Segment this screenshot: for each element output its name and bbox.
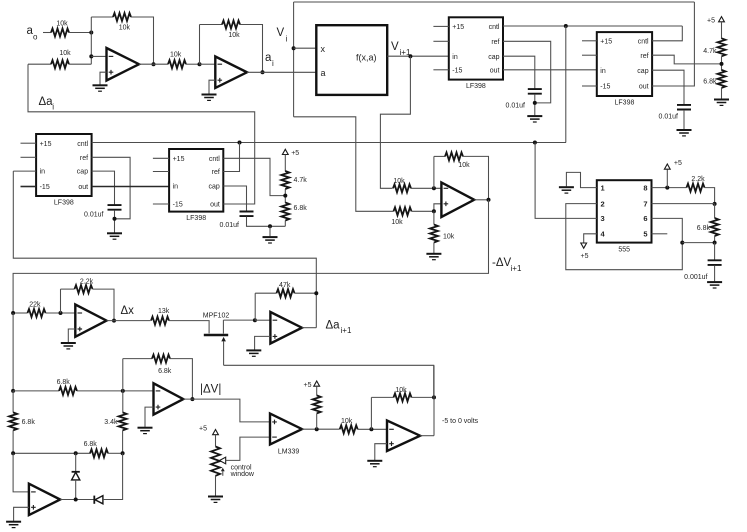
wire abs input column xyxy=(12,313,14,391)
op-amp U3 input polarity glyphs xyxy=(444,187,449,189)
node 555 pin7 junction xyxy=(713,202,717,206)
wire U14 output riser xyxy=(433,365,435,435)
function block f(x,a) xyxy=(316,25,387,95)
resistor 6.8k 555 timing xyxy=(711,218,719,236)
node right divider junction xyxy=(720,62,724,66)
svg-text:6.8k: 6.8k xyxy=(697,225,711,232)
node U6 cap/ref junction xyxy=(533,101,537,105)
svg-text:10k: 10k xyxy=(59,50,71,57)
svg-text:3: 3 xyxy=(601,214,605,223)
op-amp U9 input polarity glyphs xyxy=(78,312,83,314)
node 22k input xyxy=(11,311,15,315)
wire left divider top xyxy=(284,155,286,172)
ground U4 hold cap xyxy=(107,233,122,239)
wire U1 noninverting to ground xyxy=(100,72,107,84)
wire U10 feedback left xyxy=(255,292,276,294)
svg-text:-ΔV: -ΔV xyxy=(492,257,512,269)
ground 555 pin1 xyxy=(559,187,574,193)
node a_o/feedback junction xyxy=(89,31,93,35)
supply +5 arrow (left divider) xyxy=(282,149,288,154)
wire U5 cap bottom row xyxy=(247,217,286,227)
svg-text:10k: 10k xyxy=(119,24,131,31)
wire U7 ref to divider xyxy=(652,55,721,64)
wire 555 pin5 stub xyxy=(652,233,668,235)
capacitor 0.01uf U6 hold xyxy=(528,89,542,94)
wire +5 stub 555 pin8 xyxy=(666,169,668,187)
wire U10 feedback riser xyxy=(254,293,256,320)
wire U10 inverting input xyxy=(255,319,271,321)
resistor 13k xyxy=(151,317,169,325)
svg-text:8: 8 xyxy=(643,183,647,192)
wire 555 pin2 loop xyxy=(566,204,683,270)
svg-text:555: 555 xyxy=(618,247,630,254)
op-amp U11 input polarity glyphs xyxy=(156,390,161,392)
wire abs mid row xyxy=(13,452,90,454)
wire delta-a_i feedback route xyxy=(28,64,255,204)
wire pot top lead xyxy=(215,435,217,447)
svg-text:+15: +15 xyxy=(452,24,464,31)
wire U5 cntl route to divider xyxy=(223,158,285,195)
node abs mid row right xyxy=(121,451,125,455)
wire U10 output xyxy=(302,327,316,329)
IC U8 555 timer xyxy=(597,180,652,242)
wire U14 feedback riser xyxy=(370,397,372,429)
svg-text:-15: -15 xyxy=(600,84,610,91)
svg-text:10k: 10k xyxy=(393,178,405,185)
wire U7 -15 stub xyxy=(582,85,597,87)
resistor 10k U14 feedback xyxy=(394,393,412,401)
svg-text:cntl: cntl xyxy=(489,24,500,31)
op-amp U11 abs output xyxy=(154,383,184,414)
wire U14 feedback right xyxy=(412,396,435,398)
wire U7 out return to V_i xyxy=(652,2,694,86)
wire U9 output xyxy=(107,320,151,322)
resistor 10k diff noninverting to ground xyxy=(430,225,438,243)
ground U2 noninverting xyxy=(202,95,217,101)
svg-text:a: a xyxy=(265,52,272,64)
op-amp U13 LM339 comparator xyxy=(270,414,302,445)
svg-text:out: out xyxy=(639,84,649,91)
svg-text:ref: ref xyxy=(80,155,88,162)
wire timing cap top lead xyxy=(714,243,716,260)
svg-text:10k: 10k xyxy=(443,234,455,241)
svg-text:22k: 22k xyxy=(29,301,41,308)
node U4 cap/ref junction xyxy=(113,217,117,221)
wire V_i route to diff amp xyxy=(294,117,394,212)
svg-text:+5: +5 xyxy=(581,253,589,260)
resistor 10k a_o input xyxy=(51,29,69,37)
wire U7 pin2 stub xyxy=(582,54,597,56)
wire diff feedback to output xyxy=(463,156,489,199)
wire 3.4k top lead xyxy=(122,391,124,413)
op-amp U2 input polarity glyphs xyxy=(218,63,223,65)
svg-text:2.2k: 2.2k xyxy=(80,278,94,285)
op-amp U10 input polarity glyphs xyxy=(273,319,278,321)
resistor 10k delta-a_i input xyxy=(51,60,69,68)
supply +5 arrow (pot) xyxy=(213,430,219,435)
svg-text:+15: +15 xyxy=(600,38,612,45)
diode D1 xyxy=(72,471,80,473)
ground U12 noninverting xyxy=(6,522,21,528)
svg-text:in: in xyxy=(600,68,606,75)
transistor Q1 MPF102 xyxy=(204,334,228,337)
wire U7 cap to ground xyxy=(683,110,685,129)
svg-text:6.8k: 6.8k xyxy=(158,368,172,375)
node U14 inverting xyxy=(369,427,373,431)
svg-text:i+1: i+1 xyxy=(511,264,522,273)
wire -dV_i+1 route xyxy=(13,200,488,313)
wire U7 cap lead xyxy=(652,70,684,104)
wire U6 out to U7 in xyxy=(503,69,597,71)
svg-text:0.01uf: 0.01uf xyxy=(84,212,104,219)
wire U2 output to a input xyxy=(247,71,316,73)
op-amp U9 delta-x xyxy=(75,305,106,337)
resistor 6.8k abs input xyxy=(59,387,77,395)
svg-text:10k: 10k xyxy=(341,418,353,425)
ground U6 hold cap xyxy=(527,116,542,122)
supply +5 arrow (555 pin8) xyxy=(664,164,670,169)
wire U6 cap to ground xyxy=(534,94,536,115)
node 555 pin6 junction xyxy=(680,241,684,245)
node U1 output xyxy=(152,62,156,66)
op-amp U14 output inverter xyxy=(387,421,420,452)
svg-text:o: o xyxy=(33,33,38,42)
wire 555 pin6 xyxy=(652,218,683,242)
wire timing cap to ground xyxy=(714,265,716,281)
svg-text:4.7k: 4.7k xyxy=(294,177,308,184)
wire U4 +15 stub xyxy=(21,142,37,144)
svg-text:ref: ref xyxy=(212,169,220,176)
wire U6 -15 stub xyxy=(433,69,448,71)
resistor 10k U1 feedback xyxy=(113,13,131,21)
wire U12 inverting input xyxy=(13,453,29,492)
ground U7 hold cap xyxy=(677,130,692,136)
wire U6 ref loop xyxy=(503,41,551,103)
svg-text:6.8k: 6.8k xyxy=(22,419,36,426)
resistor 6.8k left divider xyxy=(281,203,289,221)
wire U4 in lead xyxy=(13,170,36,172)
node U5 cap ground tap xyxy=(268,224,272,228)
svg-text:cntl: cntl xyxy=(77,141,88,148)
node U12 output xyxy=(74,498,78,502)
svg-text:47k: 47k xyxy=(279,282,291,289)
wire 555 pin7 xyxy=(652,203,715,205)
wire U5 ref riser xyxy=(223,143,239,172)
svg-text:+15: +15 xyxy=(40,141,52,148)
wire U4 out to U5 in xyxy=(92,186,170,188)
ground U5 hold cap xyxy=(263,237,278,243)
resistor 10k diff noninverting input xyxy=(394,207,412,215)
wire U14 noninverting to ground xyxy=(375,444,387,460)
wire U1 output xyxy=(139,63,168,65)
node 555 pin8 supply tap xyxy=(665,186,669,190)
diode D2 xyxy=(93,496,95,504)
svg-text:6.8k: 6.8k xyxy=(57,379,71,386)
wire JFET gate control xyxy=(224,365,434,397)
wire 6.8k bottom lead xyxy=(714,236,716,243)
wire 555 pin8 supply row xyxy=(652,187,687,189)
svg-text:5: 5 xyxy=(643,230,647,239)
resistor 4.7k left divider xyxy=(281,171,289,189)
svg-text:out: out xyxy=(78,184,88,191)
wire U2 feedback left riser xyxy=(199,25,201,65)
node delta-x output xyxy=(112,319,116,323)
wire U5 pin2 stub xyxy=(153,171,169,173)
wire U1 inverting input xyxy=(91,55,106,57)
resistor 2.2k pullup xyxy=(313,395,321,413)
svg-text:1: 1 xyxy=(601,183,605,192)
wire 555 timing cap row xyxy=(682,242,714,244)
node U1 inverting input xyxy=(89,54,93,58)
wire 6.8k left vertical bottom lead xyxy=(12,430,14,453)
node LM339 output xyxy=(315,427,319,431)
svg-text:LF398: LF398 xyxy=(186,215,206,222)
wire diff noninverting node xyxy=(412,204,442,212)
wire U10 noninverting to ground xyxy=(255,336,271,349)
node |dV| output xyxy=(190,397,194,401)
svg-text:13k: 13k xyxy=(158,308,170,315)
wire 3.4k bottom lead xyxy=(122,430,124,453)
op-amp U1 xyxy=(107,48,140,81)
IC U6 LF398 sample-hold xyxy=(449,17,503,79)
wire |dV| route to comparator xyxy=(183,399,270,422)
wire U4 in route from delta-a_i+1 xyxy=(13,171,316,328)
resistor 10k diff inverting input xyxy=(393,184,411,192)
wire V_i+1 drop to diff amp xyxy=(380,56,410,188)
wire U12 output xyxy=(60,499,94,501)
node U9 inverting xyxy=(59,311,63,315)
svg-text:4.7k: 4.7k xyxy=(703,48,717,55)
svg-text:ref: ref xyxy=(491,39,499,46)
ground diff noninverting resistor xyxy=(426,254,441,260)
node control bus to 555 out xyxy=(533,141,537,145)
node diode D1 tap xyxy=(74,451,78,455)
op-amp U3 difference amp xyxy=(441,183,474,218)
wire U6/U7 cntl line xyxy=(503,25,682,27)
svg-text:2: 2 xyxy=(601,199,605,208)
node control bus to U5 ref xyxy=(238,141,242,145)
ground U10 noninverting xyxy=(246,350,261,356)
svg-text:Δa: Δa xyxy=(326,320,341,332)
svg-text:0.01uf: 0.01uf xyxy=(659,114,679,121)
svg-text:in: in xyxy=(40,169,46,176)
wire U3 output xyxy=(474,199,488,201)
svg-text:2.2k: 2.2k xyxy=(691,176,705,183)
svg-text:+5: +5 xyxy=(304,382,312,389)
op-amp U12 input polarity glyphs xyxy=(31,491,36,493)
wire right divider bottom xyxy=(721,88,723,99)
svg-text:MPF102: MPF102 xyxy=(203,313,230,320)
wire U11 feedback left xyxy=(123,358,152,360)
node U14 feedback/gate junction xyxy=(432,395,436,399)
svg-text:6: 6 xyxy=(643,214,647,223)
wire U5 cap lead xyxy=(223,186,246,211)
wire U7 cntl riser xyxy=(652,26,682,41)
wire 6.8k left vertical top lead xyxy=(12,391,14,413)
ground right divider xyxy=(714,100,729,106)
capacitor 0.01uf U7 hold xyxy=(677,105,691,110)
svg-text:-5 to 0 volts: -5 to 0 volts xyxy=(442,418,479,425)
wire U1 feedback top left xyxy=(91,16,113,18)
wire U9 feedback top left xyxy=(61,288,75,290)
svg-text:cntl: cntl xyxy=(638,38,649,45)
wire pot bottom lead xyxy=(215,476,217,496)
svg-text:out: out xyxy=(210,202,220,209)
IC U7 LF398 sample-hold xyxy=(597,32,652,96)
node U3 output xyxy=(487,198,491,202)
resistor 22k xyxy=(28,309,46,317)
wire pullup top lead xyxy=(316,386,318,395)
svg-text:cap: cap xyxy=(488,54,499,61)
wire U2 noninverting to ground xyxy=(209,80,215,94)
svg-text:6.8k: 6.8k xyxy=(294,205,308,212)
wire 2.2k to pin7 node xyxy=(705,188,715,205)
svg-text:10k: 10k xyxy=(170,52,182,59)
ground U1 noninverting xyxy=(93,85,108,91)
node a_i xyxy=(261,70,265,74)
svg-text:LM339: LM339 xyxy=(278,449,300,456)
svg-text:+15: +15 xyxy=(173,156,185,163)
wire 555 pin1 to ground xyxy=(566,172,596,187)
svg-text:0.01uf: 0.01uf xyxy=(220,222,240,229)
supply +5 arrow (right divider) xyxy=(719,17,725,22)
svg-text:V: V xyxy=(277,27,285,39)
svg-text:in: in xyxy=(452,54,458,61)
potentiometer control window xyxy=(211,447,220,476)
wire right divider top xyxy=(721,22,723,39)
wire 6.8k top lead xyxy=(714,204,716,218)
svg-text:i: i xyxy=(52,103,54,112)
svg-text:Δx: Δx xyxy=(121,305,135,317)
wire left divider middle xyxy=(284,189,286,203)
op-amp U13 input polarity glyphs xyxy=(272,420,277,425)
resistor 6.8k abs left xyxy=(9,412,17,430)
wire U9 noninverting to ground xyxy=(68,329,75,342)
resistor 10k U2 feedback xyxy=(222,21,240,29)
wire summing node column xyxy=(90,17,92,64)
wire right divider middle xyxy=(721,56,723,70)
wire U9 feedback riser xyxy=(60,289,62,313)
node V_i to x input xyxy=(292,46,296,50)
svg-text:Δa: Δa xyxy=(39,96,54,108)
wire 13k to JFET drain xyxy=(169,321,209,334)
svg-text:in: in xyxy=(173,184,179,191)
wire diff ground resistor bottom xyxy=(433,243,435,254)
wire a_o resistor to node xyxy=(69,32,91,34)
wire U11 feedback right xyxy=(170,359,192,400)
wire LM339 output xyxy=(302,428,340,430)
wire delta-a_i resistor to column xyxy=(69,63,91,65)
resistor 10k diff feedback xyxy=(445,152,463,160)
ground U9 noninverting xyxy=(61,343,76,349)
node abs mid row left xyxy=(11,451,15,455)
svg-text:-15: -15 xyxy=(452,67,462,74)
wire abs top row left xyxy=(13,390,59,392)
resistor 2.2k 555 timing xyxy=(687,184,705,192)
wire U4 cap lead xyxy=(92,171,115,205)
wire U5 +15 stub xyxy=(153,157,169,159)
wire abs mid row right xyxy=(108,452,123,454)
wire U6 cap lead xyxy=(503,56,535,89)
svg-text:10k: 10k xyxy=(228,32,240,39)
svg-text:+5: +5 xyxy=(674,160,682,167)
resistor 47k U10 feedback xyxy=(277,289,295,297)
resistor 3.4k xyxy=(119,412,127,430)
svg-text:+5: +5 xyxy=(707,17,715,24)
wire to U2 input node xyxy=(186,63,200,65)
svg-text:x: x xyxy=(321,44,326,54)
svg-text:cap: cap xyxy=(637,68,648,75)
wire diff feedback top xyxy=(434,155,445,157)
svg-text:i+1: i+1 xyxy=(341,326,352,335)
resistor 4.7k right divider xyxy=(718,38,726,56)
wire U7 +15 stub xyxy=(582,40,597,42)
wire 22k input lead xyxy=(13,312,27,314)
resistor 6.8k U11 feedback xyxy=(152,355,170,363)
supply +5 arrow (pullup) xyxy=(314,381,320,386)
wire U11 feedback riser xyxy=(122,359,124,391)
wire D1 column top xyxy=(75,453,77,471)
IC U5 LF398 sample-hold xyxy=(169,149,223,212)
wire U4 cap to ground xyxy=(114,210,116,232)
wire V_i vertical bus xyxy=(293,2,295,117)
wire U2 feedback top left xyxy=(200,24,223,26)
node left divider junction xyxy=(283,194,287,198)
node U10 feedback/output xyxy=(314,291,318,295)
wire pot wiper to comparator xyxy=(226,437,270,460)
node V_i+1 xyxy=(408,54,412,58)
svg-text:cap: cap xyxy=(209,184,220,191)
svg-text:ref: ref xyxy=(640,53,648,60)
op-amp U1 input polarity glyphs xyxy=(109,55,114,57)
svg-text:0.001uf: 0.001uf xyxy=(684,274,707,281)
wire 555 pin4 lead xyxy=(584,234,597,243)
svg-text:LF398: LF398 xyxy=(615,100,635,107)
wire U6 +15 stub xyxy=(433,25,448,27)
resistor 10k comparator output xyxy=(340,425,358,433)
wire U2 inverting input xyxy=(200,63,216,65)
resistor 10k U1 to U2 xyxy=(168,60,186,68)
capacitor 0.01uf U4 hold xyxy=(108,205,122,210)
wire D1 column bottom xyxy=(75,480,77,500)
svg-text:-15: -15 xyxy=(173,202,183,209)
wire U10 feedback right xyxy=(295,292,317,294)
op-amp U14 input polarity glyphs xyxy=(389,428,394,430)
wire U9 feedback top right xyxy=(93,289,115,321)
svg-text:window: window xyxy=(230,471,255,478)
capacitor 0.01uf U5 hold xyxy=(240,212,254,217)
node diff noninverting xyxy=(432,209,436,213)
wire U5 -15 stub xyxy=(153,203,169,205)
svg-text:0.01uf: 0.01uf xyxy=(506,103,526,110)
ground 555 timing cap xyxy=(707,282,722,288)
svg-text:|ΔV|: |ΔV| xyxy=(200,384,221,396)
resistor 2.2k U9 feedback xyxy=(75,285,93,293)
svg-text:cntl: cntl xyxy=(209,156,220,163)
svg-text:V: V xyxy=(391,41,399,53)
svg-text:out: out xyxy=(490,67,500,74)
svg-text:i: i xyxy=(272,59,274,68)
op-amp U10 delta-a_i+1 xyxy=(270,312,302,344)
svg-text:7: 7 xyxy=(643,199,647,208)
wire U2 feedback top right xyxy=(240,25,263,73)
svg-text:10k: 10k xyxy=(56,21,68,28)
wire left divider bottom xyxy=(284,221,286,227)
node U2 inverting input xyxy=(198,62,202,66)
ground U11 noninverting xyxy=(138,428,153,434)
svg-text:i: i xyxy=(286,35,288,44)
wire D2 to right column xyxy=(103,453,123,499)
